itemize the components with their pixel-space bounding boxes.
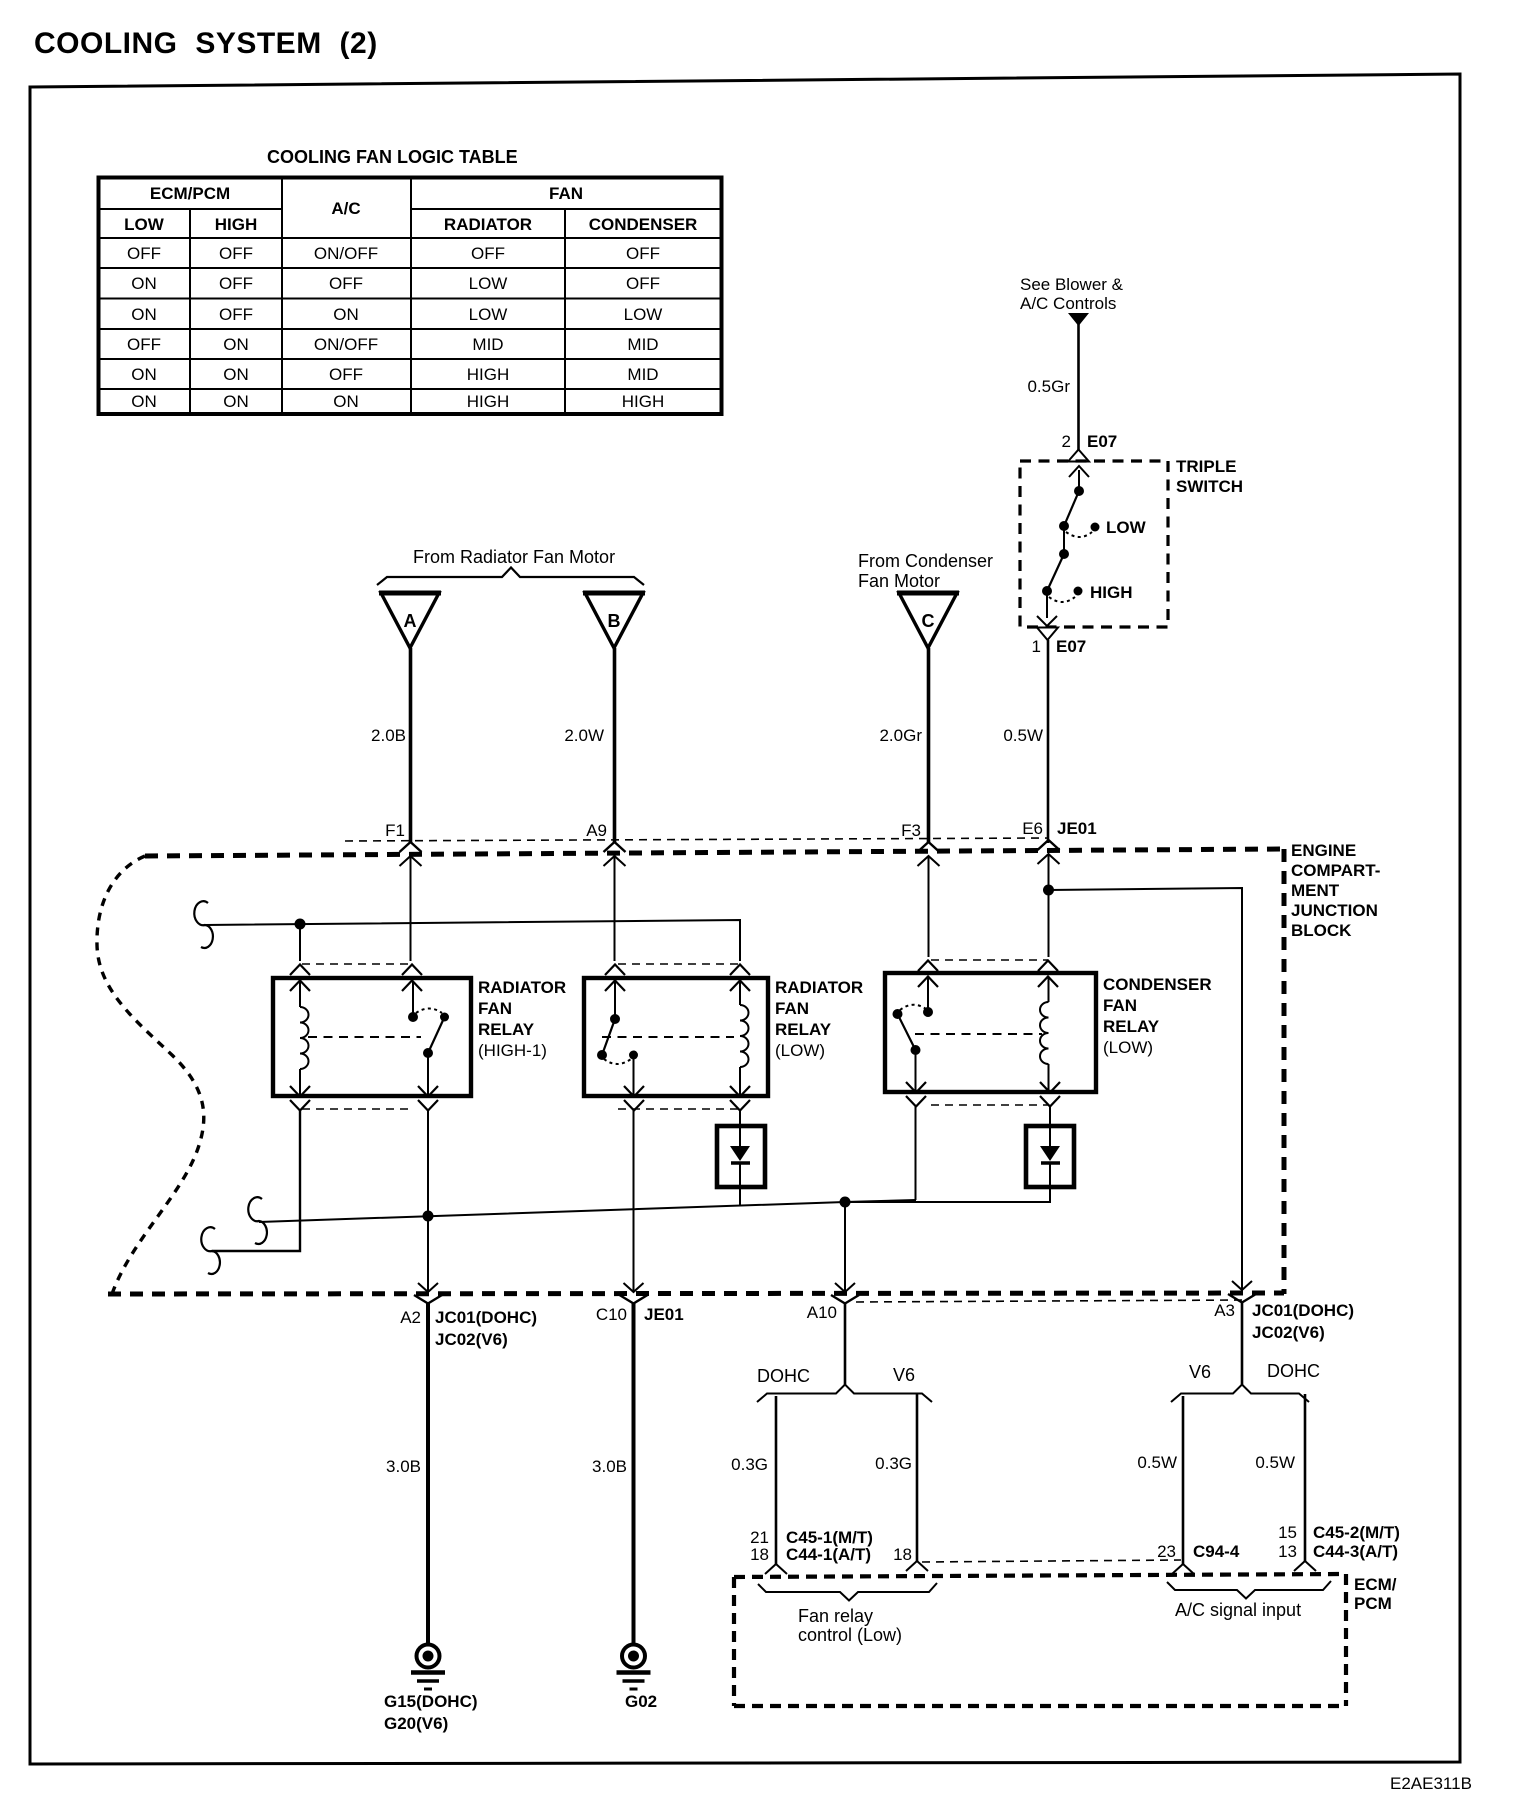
svg-text:G15(DOHC): G15(DOHC) [384,1692,478,1711]
svg-text:E07: E07 [1087,432,1117,451]
wire A10 to split [844,1303,847,1385]
svg-text:DOHC: DOHC [757,1366,810,1386]
cooling fan logic table grid [98,177,722,414]
wire 0.5W from triple switch to E6 [1003,640,1048,843]
relay 1 coil return wire [212,1110,300,1251]
wire 3.0B from A2 to G15/G20 [386,1303,428,1643]
svg-text:2.0Gr: 2.0Gr [879,726,922,745]
svg-text:HIGH: HIGH [1090,583,1133,602]
label: From Condenser Fan Motor [858,551,993,591]
wire A3 to split [1241,1302,1244,1385]
svg-text:OFF: OFF [219,305,253,324]
wire 0.5W V6 branch [1137,1396,1183,1565]
svg-text:LOW: LOW [469,274,508,293]
connector C10 JE01 [596,1283,684,1324]
svg-text:OFF: OFF [329,274,363,293]
ground G15/G20 [384,1645,478,1734]
table header text [124,184,697,234]
svg-text:ON: ON [333,392,359,411]
triple switch internals [1037,470,1100,626]
svg-text:ON: ON [223,365,249,384]
svg-text:2: 2 [1062,432,1071,451]
radiator fan relay (HIGH-1) box [273,978,566,1096]
svg-text:MID: MID [627,365,658,384]
radiator fan relay (LOW) box [584,978,863,1096]
connector A3 JC01/JC02 [1214,1281,1354,1342]
svg-text:SWITCH: SWITCH [1176,477,1243,496]
wire 3.0B from C10 to G02 [592,1303,633,1643]
svg-text:COOLING SYSTEM (2): COOLING SYSTEM (2) [34,27,378,60]
svg-text:LOW: LOW [1106,518,1147,537]
condenser fan relay (LOW) box [885,973,1212,1092]
svg-text:TRIPLE: TRIPLE [1176,457,1236,476]
connector C94-4 / C45-2 / C44-3 pins [1157,1523,1400,1574]
svg-text:V6: V6 [893,1365,915,1385]
svg-text:CONDENSER: CONDENSER [1103,975,1212,994]
wire 2.0W from B to A9 [564,648,614,843]
svg-text:JUNCTION: JUNCTION [1291,901,1378,920]
junction dot on E6 wire [1043,885,1054,896]
svg-text:ON: ON [223,335,249,354]
svg-text:2.0W: 2.0W [564,726,604,745]
svg-text:ON: ON [131,274,157,293]
svg-text:OFF: OFF [329,365,363,384]
svg-text:C45-2(M/T): C45-2(M/T) [1313,1523,1400,1542]
junction dot at A10 branch [840,1197,851,1208]
svg-text:control (Low): control (Low) [798,1625,902,1645]
connector A2 JC01/JC02 [400,1283,537,1349]
svg-text:18: 18 [750,1545,769,1564]
relay 1 coil [300,981,309,1096]
svg-text:13: 13 [1278,1542,1297,1561]
svg-text:E2AE311B: E2AE311B [1390,1774,1472,1793]
relay 2 switch [597,981,638,1096]
svg-text:JC01(DOHC): JC01(DOHC) [1252,1301,1354,1320]
connector A9 [586,821,625,961]
svg-text:MENT: MENT [1291,881,1340,900]
svg-text:A3: A3 [1214,1301,1235,1320]
svg-text:A10: A10 [807,1303,837,1322]
wire 0.3G DOHC branch [731,1396,776,1565]
svg-text:PCM: PCM [1354,1594,1392,1613]
svg-text:HIGH: HIGH [467,392,510,411]
connector B (from radiator fan motor) [583,593,645,648]
svg-text:HIGH: HIGH [467,365,510,384]
svg-text:ON: ON [131,365,157,384]
svg-text:RADIATOR: RADIATOR [478,978,566,997]
svg-text:C44-3(A/T): C44-3(A/T) [1313,1542,1398,1561]
wire 0.3G V6 branch [875,1394,917,1562]
svg-text:COMPART-: COMPART- [1291,861,1380,880]
svg-text:V6: V6 [1189,1362,1211,1382]
wire break squiggle (relay coil return) [201,1227,220,1274]
triple switch box [1020,457,1243,627]
svg-text:OFF: OFF [626,244,660,263]
svg-text:B: B [608,611,621,631]
svg-text:LOW: LOW [124,215,165,234]
node: E6 branch to A3 feed [1043,885,1242,1292]
label: Fan relay control (Low) [798,1606,902,1645]
svg-text:JC01(DOHC): JC01(DOHC) [435,1308,537,1327]
svg-text:CONDENSER: CONDENSER [589,215,698,234]
wire break squiggle (ground bus) [248,1197,267,1244]
svg-text:0.5W: 0.5W [1255,1453,1295,1472]
diode D1 (radiator fan relay low) [717,1110,765,1206]
svg-text:BLOCK: BLOCK [1291,921,1352,940]
svg-text:OFF: OFF [127,244,161,263]
svg-text:FAN: FAN [478,999,512,1018]
relay 1 pin connectors [290,964,438,1111]
junction dot at relay 1 coil feed [295,919,306,930]
svg-text:MID: MID [472,335,503,354]
svg-text:A2: A2 [400,1308,421,1327]
svg-text:DOHC: DOHC [1267,1361,1320,1381]
svg-text:HIGH: HIGH [622,392,665,411]
svg-text:Fan relay: Fan relay [798,1606,873,1626]
svg-text:F1: F1 [385,821,405,840]
svg-text:JC02(V6): JC02(V6) [435,1330,508,1349]
engine compartment junction block border [108,849,1284,1294]
svg-text:18: 18 [893,1545,912,1564]
svg-text:JE01: JE01 [644,1305,684,1324]
brace: A/C signal input [1167,1581,1331,1599]
svg-text:A/C signal input: A/C signal input [1175,1600,1301,1620]
relay 3 switch output wire to bus [915,1106,917,1200]
svg-text:OFF: OFF [127,335,161,354]
svg-text:ON/OFF: ON/OFF [314,335,378,354]
ground bus wire [259,1197,916,1223]
svg-text:ON: ON [223,392,249,411]
relay 2 switch output wire to C10 [633,1110,635,1291]
svg-text:F3: F3 [901,821,921,840]
svg-text:HIGH: HIGH [215,215,258,234]
svg-text:A/C: A/C [331,199,360,218]
svg-text:3.0B: 3.0B [386,1457,421,1476]
svg-text:FAN: FAN [775,999,809,1018]
svg-text:ON: ON [131,305,157,324]
svg-text:RADIATOR: RADIATOR [444,215,532,234]
svg-text:(LOW): (LOW) [775,1041,825,1060]
connector dashed line C45/C94 [922,1560,1181,1562]
svg-text:E6: E6 [1022,819,1043,838]
svg-text:1: 1 [1032,637,1041,656]
svg-text:ON: ON [333,305,359,324]
svg-text:RELAY: RELAY [1103,1017,1160,1036]
svg-text:RELAY: RELAY [775,1020,832,1039]
connector F1 [385,821,421,961]
svg-text:0.3G: 0.3G [875,1454,912,1473]
wire from E6 junction to A3 [1049,888,1243,1291]
connector dashed line F1/A9/F3/E6 [345,838,1049,841]
svg-text:A9: A9 [586,821,607,840]
svg-text:A/C Controls: A/C Controls [1020,294,1116,313]
svg-text:ECM/: ECM/ [1354,1575,1397,1594]
wire A10 drop [844,1202,846,1291]
svg-text:OFF: OFF [219,244,253,263]
connector A (from radiator fan motor) [379,593,441,648]
svg-text:Fan Motor: Fan Motor [858,571,940,591]
wire break squiggle (power feed) [194,901,213,948]
connector E07 pin 1 [1032,628,1087,657]
connector C45-1/C44-1 pins [750,1528,928,1574]
svg-text:0.5W: 0.5W [1137,1453,1177,1472]
relay 1 switch output wire to A2 [427,1110,429,1291]
relay 3 coil [1040,977,1049,1092]
split brace V6/DOHC (A3) [1171,1385,1309,1403]
wire to relay 1 coil [299,925,301,961]
svg-text:RELAY: RELAY [478,1020,535,1039]
relay 1 internal dashed link [308,1036,421,1038]
relay 2 pin connectors [605,964,750,1111]
wire 0.5W DOHC branch [1255,1394,1305,1562]
svg-text:C: C [922,611,935,631]
connector E6 JE01 [1022,819,1097,957]
svg-text:OFF: OFF [626,274,660,293]
table data text [127,244,664,411]
relay 3 pin connectors [906,960,1060,1107]
connector A10 [807,1283,859,1322]
svg-text:23: 23 [1157,1542,1176,1561]
svg-text:C44-1(A/T): C44-1(A/T) [786,1545,871,1564]
svg-text:OFF: OFF [219,274,253,293]
relay 1 switch [408,981,449,1096]
connector E07 pin 2 [1062,432,1118,477]
junction block label [1291,841,1380,940]
svg-text:(HIGH-1): (HIGH-1) [478,1041,547,1060]
svg-text:OFF: OFF [471,244,505,263]
svg-text:LOW: LOW [624,305,663,324]
relay 3 switch [893,977,934,1092]
svg-text:FAN: FAN [1103,996,1137,1015]
ECM/PCM box [734,1574,1397,1706]
svg-text:See Blower &: See Blower & [1020,275,1124,294]
brace: fan relay control [758,1583,937,1601]
connector dashed line A10/A3 [856,1300,1243,1302]
svg-text:ECM/PCM: ECM/PCM [150,184,230,203]
relay 2 coil [740,981,749,1096]
power feed wire to relay coils [205,919,740,962]
relay 2 internal dashed link [602,1036,734,1038]
ground G02 [617,1645,658,1712]
svg-text:ON/OFF: ON/OFF [314,244,378,263]
node: See Blower & A/C Controls [1020,275,1124,326]
svg-text:E07: E07 [1056,637,1086,656]
connector C (from condenser fan motor) [897,593,959,648]
junction block left wavy border [97,856,204,1294]
wire 0.5Gr from blower controls to E07 pin 2 [1027,324,1078,450]
svg-text:JC02(V6): JC02(V6) [1252,1323,1325,1342]
wire 2.0Gr from C to F3 [879,648,928,843]
svg-text:ON: ON [131,392,157,411]
svg-text:COOLING FAN LOGIC TABLE: COOLING FAN LOGIC TABLE [267,147,518,167]
svg-text:15: 15 [1278,1523,1297,1542]
svg-text:0.3G: 0.3G [731,1455,768,1474]
svg-text:LOW: LOW [469,305,508,324]
relay 3 internal dashed link [915,1033,1042,1035]
wire 2.0B from A to F1 [371,648,410,843]
svg-text:2.0B: 2.0B [371,726,406,745]
svg-text:(LOW): (LOW) [1103,1038,1153,1057]
svg-text:RADIATOR: RADIATOR [775,978,863,997]
svg-text:C94-4: C94-4 [1193,1542,1240,1561]
svg-text:From Condenser: From Condenser [858,551,993,571]
connector F3 [901,821,939,957]
svg-text:MID: MID [627,335,658,354]
svg-text:3.0B: 3.0B [592,1457,627,1476]
svg-text:0.5Gr: 0.5Gr [1027,377,1070,396]
svg-text:From Radiator Fan Motor: From Radiator Fan Motor [413,547,615,567]
svg-text:JE01: JE01 [1057,819,1097,838]
svg-text:G20(V6): G20(V6) [384,1714,448,1733]
brace over connectors A and B [377,568,644,586]
svg-text:ENGINE: ENGINE [1291,841,1356,860]
svg-text:G02: G02 [625,1692,657,1711]
svg-text:0.5W: 0.5W [1003,726,1043,745]
svg-text:C10: C10 [596,1305,627,1324]
diode D2 (condenser fan relay low) [845,1106,1074,1202]
split brace DOHC/V6 (A10) [757,1385,932,1403]
junction dot at A2 branch [423,1211,434,1222]
svg-text:FAN: FAN [549,184,583,203]
svg-text:A: A [404,611,417,631]
